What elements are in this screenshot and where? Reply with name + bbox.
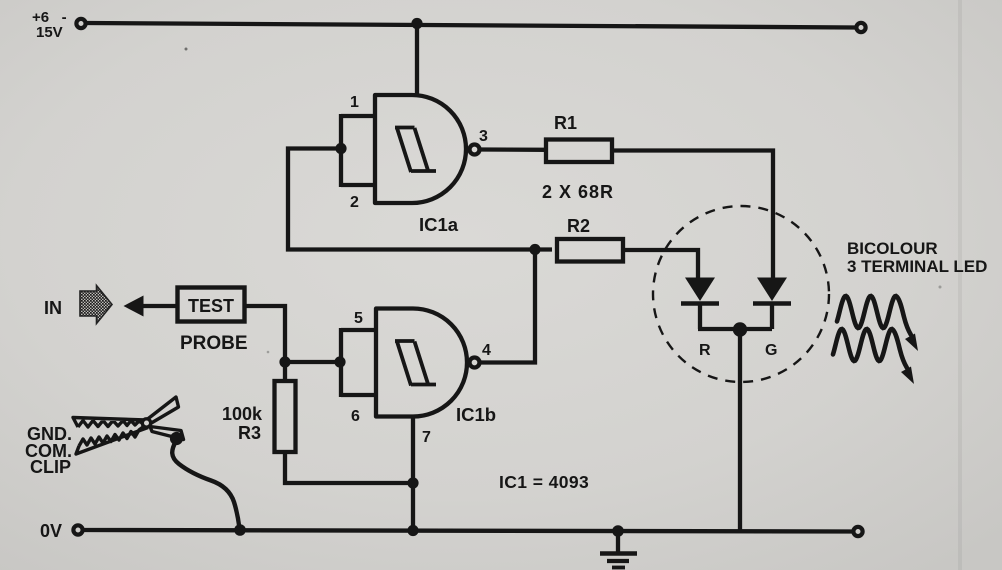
svg-text:IC1a: IC1a bbox=[419, 214, 459, 235]
top supply rail bbox=[87, 23, 856, 28]
junction dot node R2 left bbox=[529, 244, 540, 255]
bottom 0V rail bbox=[84, 530, 853, 532]
junction dot pin7 at rail bbox=[407, 525, 418, 536]
op-amp U1: NAND gate IC1b body bbox=[376, 309, 467, 417]
svg-text:BICOLOUR: BICOLOUR bbox=[847, 239, 938, 258]
wire: R3 bottom to pin7 bbox=[285, 452, 413, 483]
alligator clip: lower handle bbox=[150, 427, 184, 440]
svg-text:100k: 100k bbox=[222, 404, 263, 424]
svg-text:7: 7 bbox=[422, 429, 431, 446]
svg-text:G: G bbox=[765, 342, 777, 359]
junction dot above R3 bbox=[279, 356, 290, 367]
svg-text:R1: R1 bbox=[554, 113, 577, 133]
terminal circle top-right bbox=[856, 23, 865, 32]
terminal circle bottom-right bbox=[853, 527, 862, 536]
wire: node to R3 top bbox=[283, 362, 287, 381]
svg-text:PROBE: PROBE bbox=[180, 333, 248, 354]
wire: IC1b pin 7 down to 0V bbox=[411, 417, 415, 531]
wire: TEST box to R3 node bbox=[244, 306, 285, 362]
wire: R2 to red LED anode bbox=[623, 250, 698, 280]
svg-text:5: 5 bbox=[354, 310, 363, 327]
svg-text:3: 3 bbox=[479, 128, 488, 145]
output bubble IC1b pin 4 bbox=[470, 358, 480, 368]
svg-text:R2: R2 bbox=[567, 216, 590, 236]
dashed LED package circle bbox=[653, 206, 829, 382]
junction dot pin7/R3 bbox=[407, 477, 418, 488]
output bubble IC1a pin 3 bbox=[470, 145, 480, 155]
alligator clip: upper jaw bbox=[73, 418, 146, 428]
svg-text:IN: IN bbox=[44, 298, 62, 318]
op-amp U1: NAND gate IC1a body bbox=[375, 95, 466, 203]
pin 1 stub IC1a bbox=[341, 114, 375, 118]
svg-text:3 TERMINAL LED: 3 TERMINAL LED bbox=[847, 257, 987, 276]
diode D2 green LED bbox=[757, 278, 787, 302]
terminal circle bottom-left bbox=[73, 525, 82, 534]
svg-text:1: 1 bbox=[350, 94, 359, 111]
alligator clip: solder blob bbox=[170, 432, 183, 445]
probe arrowhead bbox=[124, 296, 144, 317]
svg-text:IC1 = 4093: IC1 = 4093 bbox=[499, 472, 589, 492]
alligator clip: upper handle bbox=[147, 397, 179, 424]
light emission arrow 1 bbox=[837, 296, 918, 351]
resistor R3 bbox=[275, 381, 296, 452]
svg-text:2: 2 bbox=[350, 194, 359, 211]
wire: R1 to green LED anode bbox=[612, 151, 773, 281]
pin 6 stub IC1b bbox=[341, 393, 376, 397]
tie wire joining pins 5-6 bbox=[339, 328, 343, 397]
pin 2 stub IC1a bbox=[341, 183, 375, 187]
svg-text:R: R bbox=[699, 342, 711, 359]
svg-text:IC1b: IC1b bbox=[456, 404, 496, 425]
schmitt hysteresis symbol IC1a bbox=[395, 128, 436, 173]
svg-text:6: 6 bbox=[351, 408, 360, 425]
resistor R2 bbox=[557, 239, 623, 262]
wire: common cathode bar bbox=[698, 327, 772, 331]
svg-text:R3: R3 bbox=[238, 423, 261, 443]
svg-text:15V: 15V bbox=[36, 24, 63, 41]
junction dot common cathode bbox=[733, 322, 747, 336]
schmitt hysteresis symbol IC1b bbox=[395, 341, 436, 386]
wire: node to IC1b inputs bbox=[285, 360, 340, 364]
TEST probe box bbox=[178, 288, 245, 322]
junction dot clip wire at rail bbox=[234, 524, 246, 536]
light emission arrow 2 bbox=[833, 329, 914, 384]
alligator clip: pivot bbox=[142, 419, 150, 427]
diode D1 red LED bbox=[685, 278, 715, 302]
ground symbol bbox=[600, 531, 637, 568]
alligator clip: lower jaw bbox=[76, 427, 148, 454]
scan specks bbox=[185, 48, 188, 51]
stippled IN arrow bbox=[80, 286, 112, 324]
wire: cathode down to 0V bbox=[738, 329, 742, 531]
pin 5 stub IC1b bbox=[341, 328, 376, 332]
junction dot on top rail bbox=[411, 18, 422, 29]
terminal circle top-left bbox=[76, 19, 85, 28]
wire: IC1a feedback to R2 node bbox=[288, 149, 552, 250]
svg-text:TEST: TEST bbox=[188, 296, 234, 316]
wire: IC1a output to R1 bbox=[480, 147, 547, 152]
svg-text:0V: 0V bbox=[40, 521, 62, 541]
wire: IC1b output up to R2 node bbox=[480, 250, 535, 363]
flexible wire clip to 0V bbox=[172, 441, 239, 529]
svg-text:CLIP: CLIP bbox=[30, 457, 71, 477]
svg-text:2 X 68R: 2 X 68R bbox=[542, 182, 614, 202]
wire: probe arrow line bbox=[139, 304, 177, 308]
junction dot on IC1b input tie bbox=[334, 356, 345, 367]
junction dot ground node bbox=[612, 525, 624, 537]
tie wire joining pins 1-2 bbox=[339, 114, 343, 187]
scan artifact vertical line bbox=[958, 0, 962, 570]
svg-text:4: 4 bbox=[482, 342, 491, 359]
junction dot on IC1a input tie bbox=[335, 143, 346, 154]
wire: supply drop to IC1a bbox=[415, 24, 419, 96]
resistor R1 bbox=[546, 140, 612, 163]
